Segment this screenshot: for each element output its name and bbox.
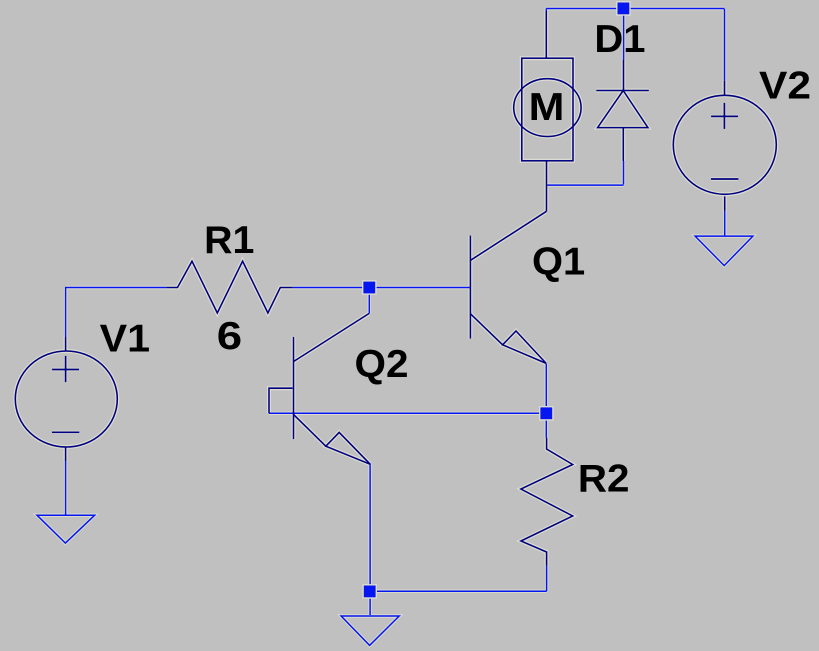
svg-text:M: M <box>529 86 565 129</box>
svg-text:R1: R1 <box>204 219 254 262</box>
svg-text:V1: V1 <box>100 317 150 360</box>
svg-text:6: 6 <box>217 315 242 358</box>
svg-text:Q1: Q1 <box>532 241 585 284</box>
svg-text:Q2: Q2 <box>355 343 409 386</box>
svg-text:R2: R2 <box>578 457 630 500</box>
svg-text:V2: V2 <box>759 65 811 108</box>
svg-text:D1: D1 <box>594 18 645 61</box>
